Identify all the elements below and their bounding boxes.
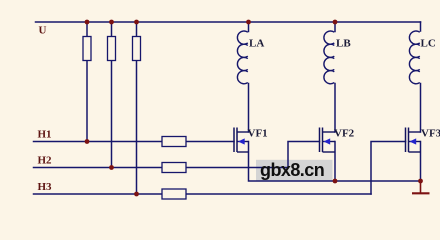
resistor RG1 (gate, horizontal) <box>162 137 186 147</box>
ground <box>412 181 430 193</box>
wire: H1 bus <box>34 141 163 143</box>
watermark background box <box>256 160 333 181</box>
transistor VF2 arrow <box>324 138 331 144</box>
wire: top supply rail U <box>36 21 421 23</box>
resistor RG2 (gate, horizontal) <box>162 163 186 173</box>
junction on rail at LB <box>333 20 338 25</box>
wire: LA bottom to VF1 drain <box>248 84 250 133</box>
junction on rail at LA <box>246 20 251 25</box>
junction H1/R1 <box>85 139 90 144</box>
wire: LB bottom to VF2 drain <box>334 84 336 133</box>
wire: source rail to ground node <box>335 180 421 182</box>
svg-text:U: U <box>39 24 47 36</box>
wire: H2 riser and VF2 gate lead <box>288 142 320 168</box>
wire: H2 bus <box>34 167 163 169</box>
wire: H2 resistor to riser <box>186 167 288 169</box>
svg-text:LA: LA <box>249 38 264 50</box>
wire: H3 resistor to riser <box>186 193 371 195</box>
resistor R3 (vertical) <box>133 37 141 61</box>
svg-text:LB: LB <box>336 38 351 50</box>
junction H3/R3 <box>134 192 139 197</box>
transistor VF3 (MOSFET) <box>406 128 421 153</box>
wire: VF3 source drop <box>420 142 422 182</box>
wire: VF2 source drop <box>334 142 336 182</box>
wire: LB top lead <box>334 22 336 32</box>
junction source rail / VF2 <box>333 179 338 184</box>
wire: H1 resistor to VF1 gate <box>186 141 234 143</box>
transistor VF1 (MOSFET) <box>234 128 249 153</box>
svg-text:VF2: VF2 <box>334 128 355 140</box>
transistor VF3 arrow <box>410 138 417 144</box>
wire: LC corner drop from rail <box>420 22 422 31</box>
wire: R2 top lead <box>111 22 113 37</box>
wire: R1 bottom lead to H1 <box>86 61 88 142</box>
wire: R3 top lead <box>136 22 138 37</box>
wire: LA top lead <box>248 22 250 32</box>
svg-text:H3: H3 <box>38 181 53 193</box>
wire: LC bottom to VF3 drain <box>420 84 422 133</box>
svg-text:LC: LC <box>421 38 436 50</box>
junction source rail / ground <box>418 179 423 184</box>
inductor LA coil <box>237 31 247 84</box>
svg-text:VF3: VF3 <box>421 128 440 140</box>
wire: H3 riser and VF3 gate lead <box>371 142 406 195</box>
resistor R2 (vertical) <box>108 37 116 61</box>
wire: VF1 source drop <box>249 142 336 182</box>
wire: R2 bottom lead to H2 <box>111 61 113 168</box>
svg-text:VF1: VF1 <box>248 128 268 140</box>
junction on rail at R3 <box>134 20 139 25</box>
transistor VF2 (MOSFET) <box>320 128 336 153</box>
wire: R1 top lead <box>86 22 88 37</box>
wire: R3 bottom lead to H3 <box>136 61 138 195</box>
svg-text:H1: H1 <box>38 129 52 141</box>
wire: H3 bus <box>34 193 163 195</box>
inductor LC coil <box>409 31 419 84</box>
resistor R1 (vertical) <box>83 37 91 61</box>
transistor VF1 arrow <box>238 138 245 144</box>
svg-text:H2: H2 <box>38 154 53 166</box>
inductor LB coil <box>324 31 334 84</box>
junction H2/R2 <box>109 165 114 170</box>
svg-text:gbx8.cn: gbx8.cn <box>260 160 324 180</box>
junction on rail at R2 <box>109 20 114 25</box>
junction on rail at R1 <box>85 20 90 25</box>
resistor RG3 (gate, horizontal) <box>162 189 186 199</box>
